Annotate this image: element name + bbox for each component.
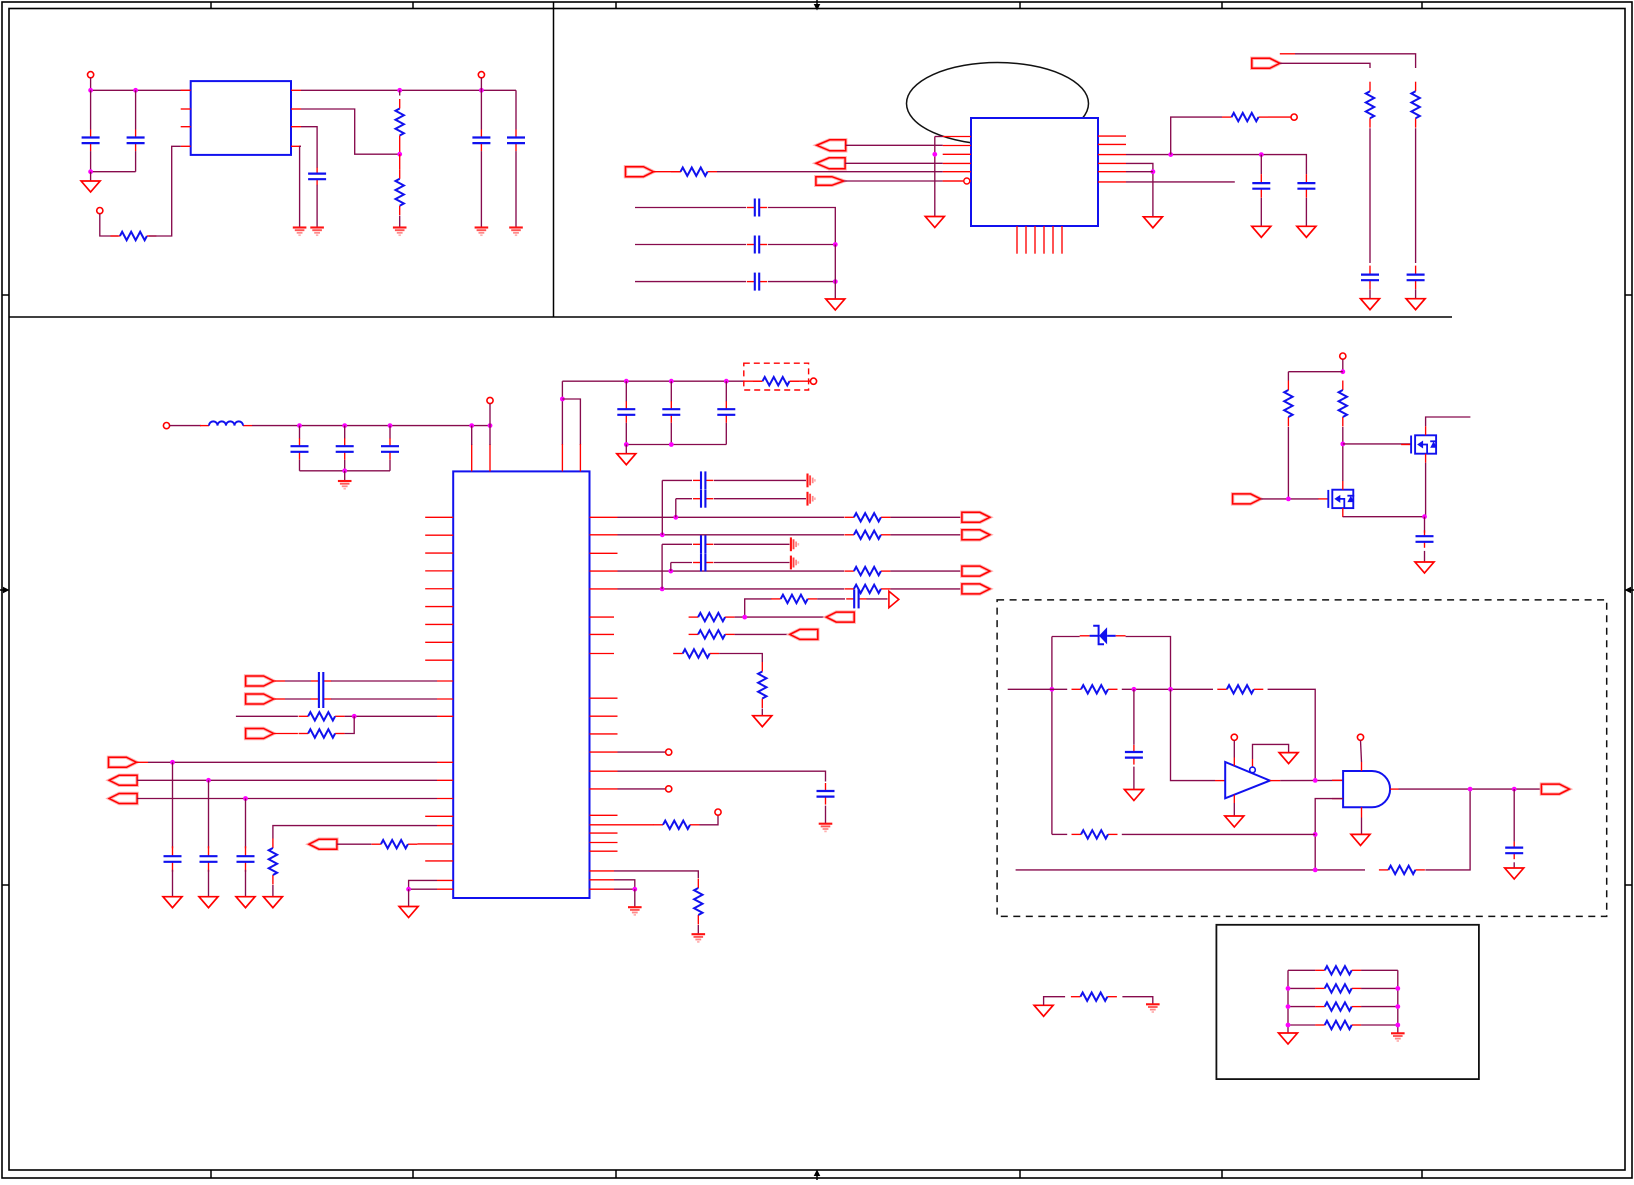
port P10: [962, 530, 990, 540]
resistor R28: [1072, 830, 1118, 838]
wire C33 gnd stem: [1513, 862, 1515, 868]
resistor R32: [1315, 984, 1361, 992]
wire RN row 1 left: [1288, 969, 1315, 971]
junction: [724, 379, 729, 384]
junction: [932, 152, 937, 157]
junction: [660, 587, 665, 592]
border tick top: [412, 2, 414, 9]
junction: [1468, 787, 1473, 792]
pin U3 R21: [590, 879, 615, 881]
pin U3 L16: [425, 815, 453, 817]
dashed option box: [744, 363, 809, 390]
junction: [673, 515, 678, 520]
port P1: [246, 676, 274, 686]
wire C26 right: [714, 498, 806, 500]
wire net R2: [618, 534, 845, 536]
pin U2 left 1: [943, 136, 971, 138]
ground GND20: [692, 934, 706, 942]
wire R5 branch: [1171, 117, 1222, 155]
wire C5 top stem: [480, 90, 482, 129]
pin U1.7: [291, 126, 301, 128]
zener D1: [1090, 626, 1116, 645]
terminal T1: [88, 72, 94, 78]
resistor R23: [694, 879, 702, 925]
resistor R17: [771, 595, 817, 603]
junction: [1313, 868, 1318, 873]
port PC: [816, 177, 844, 186]
wire PE net B: [1295, 54, 1416, 68]
lead P4: [274, 733, 298, 735]
border arrow bottom: [814, 1170, 821, 1181]
junction: [1286, 1023, 1291, 1028]
wire C18 bot stem: [670, 423, 672, 445]
capacitor C25: [693, 471, 713, 489]
lead R5-T4: [1268, 116, 1291, 118]
border tick right: [1625, 884, 1632, 886]
wire U2.r3 net: [1126, 155, 1306, 174]
op-amp U4: [1215, 758, 1280, 804]
terminal T3: [478, 72, 484, 78]
pin U2 left 6: [943, 180, 971, 182]
pin U3 R5: [590, 588, 618, 590]
junction: [342, 423, 347, 428]
wire branch 599: [745, 599, 772, 617]
wire RN row 2 right: [1361, 987, 1398, 989]
wire C26 drop: [675, 499, 677, 518]
capacitor C26: [693, 490, 713, 508]
block divider horizontal: [9, 316, 1452, 318]
junction: [397, 88, 402, 93]
port P8: [309, 839, 337, 849]
capacitor C20: [311, 672, 331, 690]
wire U2.r5 net: [1126, 171, 1153, 173]
junction: [669, 442, 674, 447]
port PA: [817, 140, 846, 151]
wire U2 gnd vertical: [934, 137, 936, 217]
ground GND3: [293, 228, 307, 236]
resistor R12: [371, 840, 417, 848]
lead PC-bubble: [943, 180, 964, 182]
pin stub U2.1 ext: [935, 136, 943, 138]
ground GND13: [1406, 299, 1425, 310]
wire C7 right: [768, 208, 835, 245]
wire rail jog: [562, 399, 580, 445]
wire R19 to P14: [735, 633, 790, 635]
option box: [1216, 925, 1479, 1079]
terminal T9: [666, 786, 672, 792]
ground GND22: [1415, 562, 1434, 573]
ground GND26: [1351, 834, 1370, 845]
wire net L17: [273, 826, 437, 839]
lead P1: [274, 680, 285, 682]
pin U3 R20: [590, 870, 615, 872]
pin U3 R18: [590, 842, 618, 844]
wire T12 stem: [1233, 740, 1235, 757]
port P13: [826, 612, 854, 622]
pin U3 R3: [590, 552, 618, 554]
port P7: [109, 794, 137, 804]
lead P5: [137, 761, 149, 763]
border tick bottom: [1421, 1170, 1423, 1178]
junction: [1512, 787, 1517, 792]
wire rail drop A: [561, 381, 563, 445]
ground AGND2: [808, 492, 815, 506]
pin U2 left 3: [943, 153, 971, 155]
junction: [1313, 778, 1318, 783]
wire net L21: [409, 888, 437, 890]
wire inv input wire: [1171, 689, 1216, 780]
capacitor C33: [1505, 842, 1523, 860]
junction: [1340, 442, 1345, 447]
wire P1 wire: [285, 680, 311, 682]
wire C1 top stem: [90, 90, 92, 129]
terminal T12: [1231, 734, 1237, 740]
port P9: [962, 512, 990, 522]
capacitor C29: [846, 589, 866, 608]
transistor Q1: [1401, 426, 1437, 462]
wire net L20: [409, 880, 437, 889]
wire R16 to P12: [890, 588, 961, 590]
wire C11 gnd stem: [1305, 198, 1307, 227]
junction: [660, 532, 665, 537]
port P5: [109, 757, 137, 767]
resistor R6: [1366, 82, 1374, 128]
ground GND12: [1361, 299, 1380, 310]
ground GND16: [263, 897, 282, 908]
wire R24 to gate node: [1287, 427, 1289, 499]
wire R1 right to U1.4: [149, 146, 181, 236]
ground GND11: [1143, 217, 1162, 228]
lead C29-marker: [867, 598, 888, 600]
pin U3 L10: [437, 680, 453, 682]
wire RN right rail: [1397, 970, 1399, 1033]
pin U2 left 2: [943, 145, 971, 147]
capacitor C2: [127, 130, 145, 152]
wire net R22b: [614, 888, 635, 890]
capacitor C11: [1297, 174, 1315, 198]
capacitor C27: [693, 535, 713, 553]
border tick top: [615, 2, 617, 9]
wire U2.r6 net: [1126, 181, 1235, 183]
resistor R21: [758, 662, 766, 708]
wire C25 right: [714, 479, 806, 481]
ground GND5: [475, 228, 489, 236]
wire caps gnd stem: [344, 471, 346, 481]
pin U3 left stub 6: [425, 606, 453, 608]
junction: [1151, 169, 1156, 174]
wire R18 to P13: [735, 616, 827, 618]
resistor R14: [844, 531, 890, 539]
junction: [624, 442, 629, 447]
wire C10 gnd stem: [1260, 198, 1262, 227]
pin U3 left stub 1: [425, 516, 453, 518]
wire caps gnd stem: [834, 245, 836, 299]
R3 upper lead: [399, 154, 401, 169]
pin U3 L20: [437, 879, 453, 881]
pin U3 left stub 2: [425, 534, 453, 536]
ground GND17: [399, 907, 418, 918]
capacitor C15: [336, 438, 354, 460]
border tick bottom: [1019, 1170, 1021, 1178]
wire T13 stem: [1361, 740, 1362, 762]
ground GND24: [1279, 753, 1298, 764]
pin U2 right 6: [1098, 181, 1126, 183]
junction: [1422, 514, 1427, 519]
pin U3 left stub 9: [425, 659, 453, 661]
ground GND7: [925, 217, 944, 228]
port P11: [962, 566, 990, 576]
wire net A mid: [1122, 688, 1213, 690]
wire U2.r4 net: [1126, 163, 1153, 216]
resistor R16: [844, 585, 890, 593]
pin U3 R7: [590, 633, 615, 635]
resistor R30: [1071, 993, 1117, 1001]
ground GND4: [393, 228, 407, 236]
wire C1 bot stem: [90, 151, 92, 172]
wire PB to U2.4: [845, 162, 943, 164]
wire R21 gnd stem: [761, 709, 763, 716]
border tick bottom: [210, 1170, 212, 1178]
resistor R19: [689, 630, 735, 638]
wire net C up: [1425, 789, 1470, 870]
border arrow right: [1625, 587, 1634, 594]
lead T5: [170, 425, 201, 427]
capacitor C12: [1361, 266, 1379, 290]
pin U2 bottom 6: [1061, 226, 1063, 254]
ground AGND4: [791, 556, 798, 570]
terminal T4: [1291, 114, 1297, 120]
capacitor C1: [82, 130, 100, 152]
terminal T7: [810, 378, 816, 384]
wire C1-C2 gnd tie: [91, 171, 136, 173]
pin U3 left stub 8: [425, 641, 453, 643]
wire R24 drop: [1287, 372, 1289, 381]
wire P15 wire: [1261, 498, 1319, 500]
capacitor C6: [507, 130, 525, 152]
capacitor C7: [747, 199, 767, 217]
junction: [297, 423, 302, 428]
wire net B: [1052, 833, 1067, 835]
capacitor C31: [1416, 530, 1434, 548]
pin U2 left 5: [943, 171, 971, 173]
ground GND31: [1391, 1033, 1405, 1041]
pin U2 bottom 4: [1043, 226, 1045, 254]
lead rail-R8: [744, 380, 763, 382]
wire U5 out net: [1399, 788, 1542, 790]
junction: [388, 423, 393, 428]
port P4: [246, 729, 274, 739]
ic U3: [453, 471, 589, 898]
pin U3 R22: [590, 888, 615, 890]
pin U3 R11: [590, 733, 618, 735]
wire C6 to gnd: [515, 151, 517, 227]
pin U1.1: [181, 89, 191, 91]
terminal T11: [1340, 353, 1346, 359]
wire P2 wire: [285, 698, 311, 700]
wire Q2 drain up: [1342, 444, 1344, 481]
transistor Q2: [1318, 481, 1354, 517]
wire net A right: [1268, 689, 1316, 780]
junction: [1395, 986, 1400, 991]
wire C22 stem: [172, 762, 174, 848]
wire C12 gnd stem: [1369, 289, 1371, 298]
port PB: [816, 158, 845, 169]
wire C8 right: [768, 244, 835, 246]
wire net3 left: [236, 715, 298, 717]
ground AGND1: [808, 474, 815, 488]
port P6: [109, 775, 137, 785]
wire net R12: [618, 751, 666, 753]
pin U3 top 4: [579, 444, 581, 471]
wire C22 gnd stem: [172, 870, 174, 897]
wire R17 to C29: [817, 598, 845, 600]
pin U1.5: [291, 89, 301, 91]
wire C27 wire: [662, 543, 692, 545]
wire R14 to P10: [890, 534, 961, 536]
junction: [668, 569, 673, 574]
wire R2 top stem: [399, 90, 401, 95]
junction: [1168, 687, 1173, 692]
junction: [560, 397, 565, 402]
wire net A: [1008, 688, 1067, 690]
wire D1 right wire: [1126, 637, 1171, 690]
port P15: [1233, 494, 1261, 504]
pin U2 right 3: [1098, 154, 1126, 156]
wire Q1 drain up: [1426, 417, 1471, 426]
capacitor C19: [717, 401, 735, 423]
wire net R1: [618, 516, 845, 518]
resistor R2: [396, 99, 404, 145]
pin U3 R14: [590, 788, 618, 790]
resistor R18: [689, 613, 735, 621]
wire C14 top stem: [299, 426, 301, 439]
ground GND2: [310, 228, 324, 236]
pin U3 left stub 7: [425, 623, 453, 625]
wire Q1 source down: [1425, 463, 1427, 517]
inductor L1: [200, 421, 252, 425]
lead D1 a: [1080, 635, 1090, 637]
capacitor C16: [381, 438, 399, 460]
and gate U5: [1332, 762, 1399, 818]
resistor R11: [269, 839, 277, 885]
wire U5 in2 wire: [1315, 799, 1343, 870]
port P12: [962, 584, 990, 594]
wire net R4: [618, 570, 845, 572]
pin U3 R10: [590, 715, 618, 717]
resistor R15: [844, 567, 890, 575]
junction: [1395, 1023, 1400, 1028]
highlight ellipse: [907, 63, 1089, 145]
wire C14 bot stem: [299, 460, 301, 471]
resistor R34: [1315, 1021, 1361, 1029]
wire Q2 source down: [1343, 516, 1425, 518]
wire C24 gnd stem: [245, 870, 247, 897]
junction: [469, 423, 474, 428]
port P16: [1541, 784, 1569, 794]
wire C30 gnd stem: [825, 806, 827, 824]
wire PE net A: [1280, 63, 1370, 68]
wire gate link Q1: [1343, 443, 1411, 445]
pin U2 bottom 5: [1052, 226, 1054, 254]
pin U3 left stub 5: [425, 588, 453, 590]
capacitor C17: [617, 401, 635, 423]
pin U2 right 5: [1098, 171, 1126, 173]
border arrow top: [814, 0, 821, 11]
ground GND29: [1146, 1004, 1160, 1012]
pin U3 R16: [590, 824, 655, 826]
wire C15 bot stem: [344, 460, 346, 471]
port PD: [626, 167, 654, 177]
wire pin U3 top1 wire: [471, 426, 473, 445]
wire C23 stem: [208, 780, 210, 848]
junction: [397, 152, 402, 157]
wire RN row 1 right: [1361, 969, 1398, 971]
resistor R10: [299, 729, 345, 737]
capacitor C10: [1252, 174, 1270, 198]
resistor R22: [654, 821, 700, 829]
wire R9 to pin: [345, 715, 437, 717]
junction: [1313, 832, 1318, 837]
ground GND14: [338, 481, 352, 489]
wire R30 left: [1044, 997, 1066, 1006]
junction: [88, 88, 93, 93]
wire U1.8 route: [300, 146, 301, 227]
wire T11 stem: [1342, 359, 1344, 372]
pin U2 right 2: [1098, 143, 1126, 145]
wire R20 corner: [719, 654, 762, 663]
junction: [488, 423, 493, 428]
resistor R3: [396, 169, 404, 215]
wire PC to U2.6: [844, 180, 943, 182]
terminal T5: [163, 423, 169, 429]
junction: [88, 169, 93, 174]
pin U3 R13: [590, 770, 618, 772]
border tick left: [2, 884, 9, 886]
ground GND C24: [236, 897, 255, 908]
border tick bottom: [1221, 1170, 1223, 1178]
resistor R27: [1217, 685, 1263, 693]
capacitor C30: [817, 783, 835, 805]
border tick right: [1625, 294, 1632, 296]
lead PE-B: [1280, 53, 1295, 55]
pin U3 top 1: [471, 444, 473, 471]
capacitor C9: [747, 273, 767, 291]
wire RN row 2 left: [1288, 987, 1315, 989]
resistor R1: [110, 232, 156, 240]
wire C19 bot stem: [725, 423, 727, 445]
ground GND27: [1505, 868, 1524, 879]
T6 stem: [489, 404, 491, 411]
pin U3 R17: [590, 832, 618, 834]
border tick left: [2, 294, 9, 296]
pin U3 R1: [590, 516, 618, 518]
capacitor C13: [1407, 266, 1425, 290]
resistor R13: [844, 513, 890, 521]
wire U1.6 route: [301, 109, 400, 154]
junction: [1286, 497, 1291, 502]
wire C17 gnd stem: [625, 445, 627, 454]
junction: [1286, 1004, 1291, 1009]
border tick bottom: [412, 1170, 414, 1178]
pin U1.2: [181, 108, 191, 110]
ground GND C23: [199, 897, 218, 908]
marker arrow: [889, 591, 899, 608]
R2 lower lead: [399, 145, 401, 154]
pin U3 L14: [437, 779, 453, 781]
capacitor C14: [291, 438, 309, 460]
wire U4 out wire: [1280, 779, 1343, 781]
pin U3 L13: [437, 761, 453, 763]
